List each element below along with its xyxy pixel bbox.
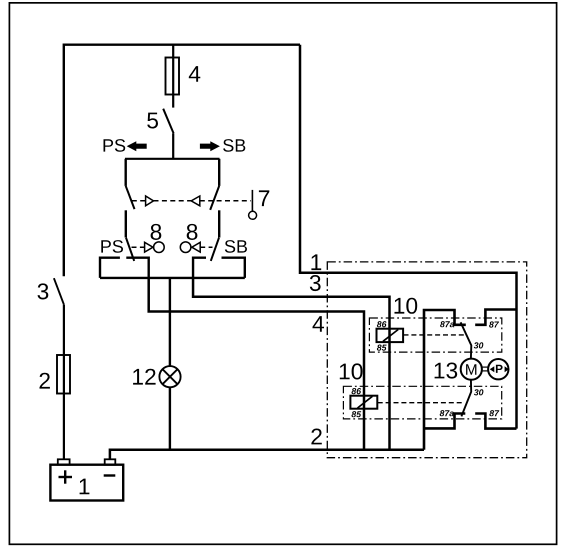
connector boxes bottom edge (100, 277, 245, 279)
pin 87a upper (440, 321, 454, 327)
label 8 left (151, 224, 162, 240)
motor M circle (461, 359, 482, 380)
wire battery plus up left side to top bus (64, 45, 300, 277)
relay 10 upper dash-dot outline (369, 318, 501, 352)
label PS stage2 (101, 240, 123, 253)
relay 10 upper label (395, 298, 418, 314)
pump arrow left (490, 366, 495, 372)
pin 87a lower (440, 410, 454, 416)
wire 4 left box to lower relay coil down to ground bus (149, 278, 364, 450)
motor shaft (482, 366, 489, 368)
actuator unit dash-dot enclosure (327, 262, 526, 458)
motor M letter (466, 364, 476, 375)
connector box left (100, 258, 149, 278)
switch stage1 left contact (124, 159, 126, 186)
node 3 label (310, 275, 321, 291)
wire switch 3 to battery plus (63, 305, 65, 460)
connector box right (193, 258, 245, 278)
pin 30 upper (474, 342, 484, 348)
relay 10 lower dash-dot outline (343, 386, 501, 419)
label SB direction (223, 139, 245, 152)
wire top bus to fuse 4 (172, 45, 174, 108)
fuse 2 label (40, 373, 50, 389)
dashed actuating link upper (404, 334, 467, 336)
label SB stage2 (225, 240, 247, 253)
node 2 label (311, 429, 321, 445)
terminal 7 label (259, 190, 269, 206)
fuse 4 label (189, 66, 201, 82)
lamp 12 label (133, 369, 156, 385)
switch 5 label (147, 113, 158, 129)
switch 3 label (38, 283, 49, 299)
contact 87 lower terminal (475, 414, 516, 429)
wire 2 battery minus ground bus (110, 450, 424, 460)
battery 1 label (80, 479, 90, 495)
fuse 2 (57, 355, 70, 394)
pump arrow right (505, 366, 509, 372)
arrow left (PS) (127, 141, 147, 151)
switch stage2 right contact (218, 210, 220, 237)
battery plus sign (59, 476, 73, 478)
label PS direction (104, 139, 126, 152)
pin 86 upper (377, 321, 387, 327)
pin 87 lower (489, 410, 499, 416)
switch 5 (163, 109, 173, 134)
pump P circle (488, 359, 508, 379)
battery 1 (50, 465, 123, 501)
node 1 label (311, 254, 321, 270)
stage1 dashed mechanical link with triangles (132, 196, 251, 206)
contact 87a bus from ground wire (424, 310, 466, 450)
relay 10 lower label (340, 363, 363, 379)
contact arm lower (461, 379, 471, 416)
pin 86 lower (352, 388, 362, 394)
stage2 dashed mechanical link with triangles and circles (132, 242, 213, 253)
battery minus sign (104, 474, 116, 476)
switch stage2 left contact (125, 210, 127, 237)
pin 30 lower (474, 389, 484, 395)
lamp 12 (159, 366, 180, 387)
wire 3 right box to upper relay coil down to ground bus (193, 278, 389, 450)
wire 1 top bus down right side into actuator box to contacts 87 (300, 45, 517, 429)
pin 85 upper (377, 345, 387, 351)
contact 87 upper terminal (475, 310, 516, 325)
pump P letter (496, 365, 503, 373)
relay coil upper (377, 329, 404, 342)
wire to lamp 12 (169, 278, 171, 366)
relay coil lower (350, 396, 377, 409)
pin 85 lower (352, 411, 362, 417)
terminal 7 (251, 190, 253, 211)
pin 87 upper (489, 321, 499, 327)
fuse 4 (166, 58, 180, 95)
arrow right (SB) (200, 141, 220, 151)
contact arm upper (461, 322, 472, 358)
switch 3 (54, 278, 64, 304)
mirror switch assembly top edge (125, 158, 220, 160)
switch stage1 right contact (218, 159, 220, 186)
node 4 label (313, 316, 325, 332)
motor 13 label (435, 363, 458, 379)
dashed actuating link lower (378, 402, 462, 404)
label 8 right (187, 224, 198, 240)
